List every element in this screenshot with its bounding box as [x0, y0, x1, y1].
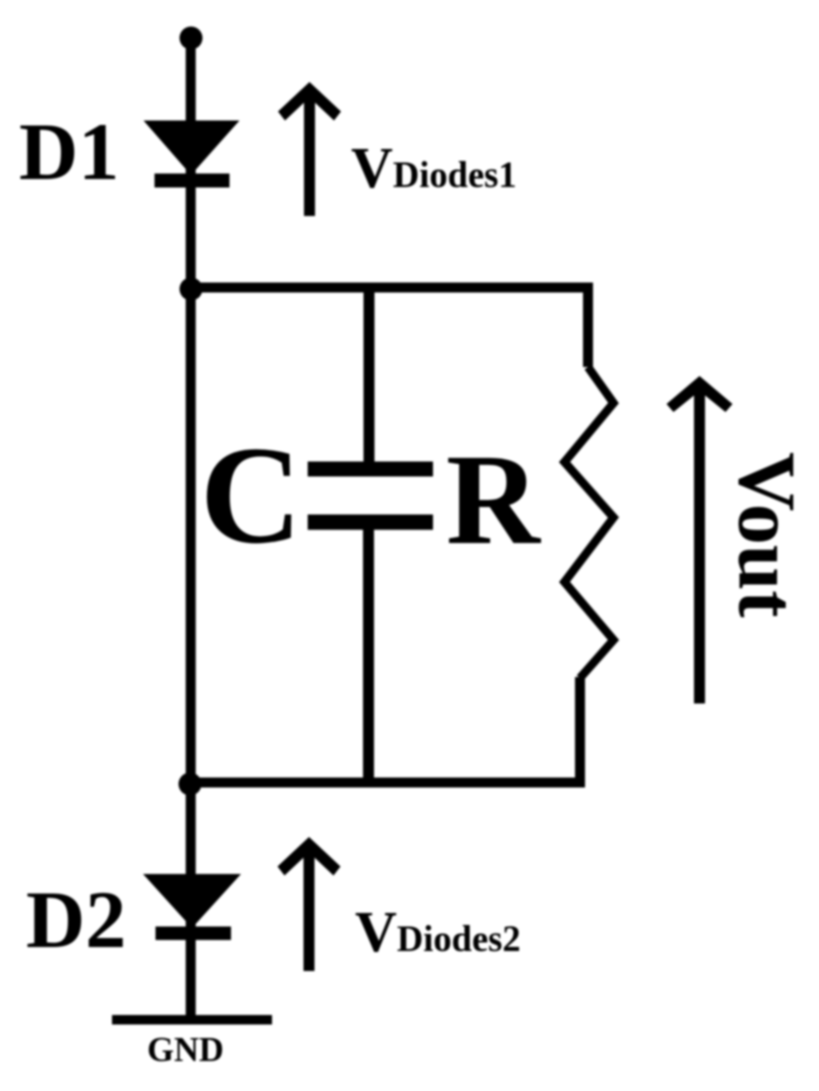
svg-text:C: C [200, 418, 302, 573]
diode D2 (anode top, cathode bottom) [143, 874, 241, 940]
svg-text:Vout: Vout [722, 452, 813, 618]
resistor R (zigzag) [565, 367, 614, 678]
ground symbol bar [112, 1015, 272, 1025]
svg-text:D2: D2 [26, 874, 126, 965]
node B: junction of D2, C and R (bottom of output loop) [179, 773, 202, 796]
svg-text:D1: D1 [19, 106, 119, 197]
capacitor C bottom plate [308, 515, 433, 530]
wire: capacitor top stem [364, 284, 375, 463]
wire: right vertical from resistor down to bottom wire [575, 677, 585, 787]
wire: top horizontal of CR loop [186, 283, 593, 293]
wire: bottom horizontal of CR loop [186, 778, 585, 788]
wire: main left vertical rail [186, 38, 196, 1020]
node A: junction of D1, C and R (top of output loop) [180, 278, 203, 301]
svg-text:VDiodes2: VDiodes2 [355, 899, 521, 964]
arrow Vout (output voltage arrow, pointing up) [667, 376, 733, 704]
wire: right vertical from top wire down to resistor [583, 283, 593, 367]
arrow VDiodes1 (voltage reference arrow, pointing up) [278, 82, 341, 216]
svg-text:R: R [446, 428, 542, 572]
svg-text:VDiodes1: VDiodes1 [351, 135, 517, 200]
capacitor C top plate [308, 462, 433, 477]
arrow VDiodes2 (voltage reference arrow, pointing up) [278, 837, 341, 971]
node: top input terminal dot [180, 27, 203, 50]
diode D1 (anode top, cathode bottom) [144, 121, 240, 188]
svg-text:GND: GND [147, 1031, 224, 1069]
wire: capacitor bottom stem [363, 528, 374, 786]
